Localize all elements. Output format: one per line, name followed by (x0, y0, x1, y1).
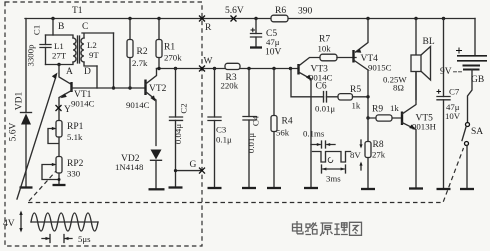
transformer T1 label (72, 6, 83, 16)
svg-text:RP2: RP2 (67, 159, 84, 169)
wire L2 bottom (D) down (96, 66, 98, 88)
svg-text:RP1: RP1 (67, 122, 84, 132)
svg-text:47μ: 47μ (266, 37, 280, 47)
wire L2 top (C) down to VT1 collector line (112, 33, 115, 90)
svg-text:1k: 1k (390, 103, 399, 113)
resistor R2 2.7k (127, 17, 148, 88)
pulse waveform annotation 0.1ms / 3ms / 8V (303, 129, 363, 184)
svg-text:2.7k: 2.7k (132, 58, 148, 68)
svg-text:9V: 9V (440, 67, 452, 77)
test point 5.6V (225, 6, 244, 22)
svg-text:270k: 270k (164, 53, 182, 63)
svg-text:9014C: 9014C (126, 100, 150, 110)
svg-text:1k: 1k (352, 101, 361, 111)
ground (VD1) (20, 186, 33, 188)
resistor R9 1k (368, 103, 402, 121)
svg-text:9014C: 9014C (71, 99, 95, 109)
probe signal arrow (diagonal pointer) (17, 73, 58, 200)
ground (C2) (169, 186, 183, 188)
svg-text:C7: C7 (449, 87, 460, 97)
ground (R4) (267, 187, 281, 189)
battery GB 9V (440, 19, 487, 123)
svg-text:5.6V: 5.6V (225, 6, 244, 16)
ground (VD2) (149, 188, 165, 190)
svg-text:W: W (204, 57, 213, 67)
resistor R5 1k (338, 85, 368, 111)
svg-text:C2: C2 (179, 103, 189, 113)
svg-text:1N4148: 1N4148 (115, 162, 144, 172)
ground (C7) (437, 188, 451, 190)
svg-text:0.04μ: 0.04μ (173, 124, 183, 144)
capacitor C3 0.1u (208, 69, 232, 187)
wire W line (VT2 collector output) (157, 67, 299, 70)
svg-text:SA: SA (471, 127, 483, 137)
svg-text:330: 330 (67, 169, 81, 179)
wire G line (174, 169, 202, 172)
loudspeaker BL 0.25W 8ohm (383, 17, 435, 100)
svg-text:10V: 10V (445, 111, 461, 121)
svg-text:L2: L2 (87, 40, 97, 50)
svg-text:0.1μ: 0.1μ (216, 135, 232, 145)
svg-text:0.1ms: 0.1ms (303, 129, 325, 139)
svg-text:G: G (190, 160, 197, 170)
capacitor C7 47u electrolytic (437, 17, 461, 188)
transistor VT4 9015C (354, 17, 392, 118)
svg-text:VD1: VD1 (15, 92, 25, 111)
resistor R6 390 (271, 6, 313, 22)
svg-text:0.01μ: 0.01μ (315, 104, 335, 114)
svg-text:C4: C4 (251, 115, 261, 126)
transistor VT3 9014C (299, 58, 333, 187)
svg-text:B: B (58, 22, 64, 32)
resistor R4 56k (271, 69, 293, 187)
svg-text:VT2: VT2 (149, 84, 167, 94)
svg-text:56k: 56k (276, 128, 290, 138)
svg-text:L1: L1 (54, 41, 64, 51)
test point G (190, 160, 206, 174)
svg-text:A: A (66, 67, 73, 77)
transistor VT5 9013H (402, 72, 437, 188)
label 5.6V (zener voltage, vertical) (9, 123, 19, 142)
test point R (199, 16, 212, 34)
svg-text:3ms: 3ms (326, 174, 341, 184)
wire 5.6V rail left section (25, 18, 271, 20)
svg-text:5.1k: 5.1k (67, 132, 83, 142)
svg-text:R5: R5 (350, 85, 361, 95)
svg-text:10V: 10V (265, 48, 282, 58)
capacitor C1 3300p (26, 25, 52, 67)
potentiometer RP2 330 (42, 157, 84, 185)
svg-text:R6: R6 (275, 6, 286, 16)
capacitor C5 47u electrolytic (251, 17, 282, 58)
diode VD2 1N4148 (115, 150, 162, 189)
ground (RP2) (53, 184, 66, 186)
svg-text:BL: BL (423, 37, 435, 47)
transformer core (78, 36, 80, 63)
test point Y (56, 105, 72, 115)
svg-text:C3: C3 (216, 125, 227, 135)
node D (84, 67, 91, 77)
svg-text:R2: R2 (137, 47, 148, 57)
capacitor C4 0.01u (243, 69, 261, 187)
svg-text:R9: R9 (372, 105, 383, 115)
svg-text:R1: R1 (164, 43, 175, 53)
test point W (199, 57, 213, 72)
svg-text:4V: 4V (3, 219, 15, 229)
transistor VT2 9014C (126, 69, 167, 146)
ground (C5) (250, 46, 262, 48)
svg-text:5.6V: 5.6V (9, 123, 19, 142)
switch SA (462, 123, 483, 188)
ground (R8) (361, 188, 375, 190)
caption: hand-drawn CJK strokes for dian-lu-yuan-li-tu (293, 221, 362, 236)
dashed gang linkage to RP2 wiper (29, 171, 56, 201)
svg-text:0.01μ: 0.01μ (246, 133, 256, 153)
svg-text:GB: GB (471, 75, 484, 85)
node A (57, 63, 73, 77)
svg-text:8Ω: 8Ω (393, 83, 404, 93)
resistor R3 220k (221, 63, 241, 90)
svg-text:9015C: 9015C (368, 63, 392, 73)
resistor R8 27k (365, 118, 386, 188)
svg-text:Y: Y (64, 105, 71, 115)
ground (SA) (460, 188, 474, 190)
svg-text:27k: 27k (372, 150, 386, 160)
node C (82, 22, 88, 32)
svg-text:D: D (84, 67, 91, 77)
node VT4 collector / R5 junction (366, 95, 369, 120)
sine waveform annotation 4V / 5us (3, 211, 98, 245)
resistor R7 10k (318, 35, 357, 61)
svg-text:27T: 27T (52, 51, 67, 61)
dashed gang linkage probe-to-switch (28, 148, 464, 203)
ground (C3) (208, 187, 222, 189)
svg-text:5μs: 5μs (78, 234, 91, 244)
svg-text:8V: 8V (350, 150, 361, 160)
inductor L1 27T (46, 35, 77, 65)
inductor L2 9T (81, 33, 114, 66)
capacitor C6 0.01u (291, 69, 338, 114)
wire VT1 collector to VT2 base (72, 86, 146, 89)
dashed probe enclosure box (5, 2, 202, 246)
resistor R1 270k (156, 17, 182, 69)
svg-text:C6: C6 (316, 82, 327, 92)
ground (VT3 emitter) (304, 187, 318, 189)
svg-text:R: R (205, 23, 212, 33)
zener diode VD1 (15, 19, 32, 187)
potentiometer RP1 5.1k (48, 121, 84, 157)
svg-text:390: 390 (298, 7, 313, 17)
svg-text:3300p: 3300p (26, 44, 36, 67)
svg-text:10k: 10k (318, 44, 332, 54)
svg-text:C: C (82, 22, 88, 32)
svg-text:9T: 9T (89, 50, 99, 60)
svg-text:9013H: 9013H (412, 122, 437, 132)
transistor VT1 9014C (59, 65, 95, 121)
wire 9V rail right section (288, 18, 475, 20)
ground (VT5 emitter) (409, 187, 423, 189)
node B (51, 17, 64, 35)
svg-text:220k: 220k (221, 81, 239, 91)
svg-text:C1: C1 (32, 25, 42, 35)
ground (C4) (242, 187, 256, 189)
svg-text:T1: T1 (72, 6, 83, 16)
svg-text:R8: R8 (373, 140, 384, 150)
svg-text:R4: R4 (282, 117, 293, 127)
capacitor C2 0.04u (170, 69, 189, 187)
